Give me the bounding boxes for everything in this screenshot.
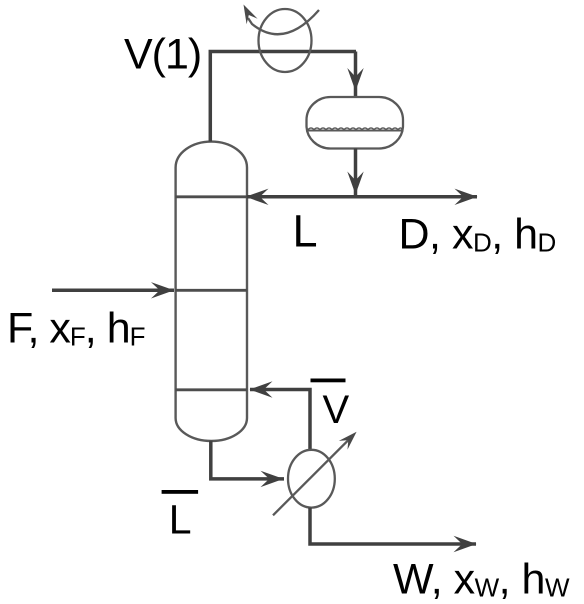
arrowhead L bar into reboiler [261,471,284,487]
svg-text:D, xD, hD: D, xD, hD [399,211,556,259]
feed line F [52,289,174,293]
condenser E1 [259,9,312,72]
distillate header line L / D [247,195,477,199]
label V bar overbar [311,379,346,383]
condenser coolant curve [248,10,319,34]
wire: reflux drum to distillate header [354,149,358,197]
svg-text:V: V [323,388,350,432]
reboiler steam arrowhead [339,432,357,450]
arrowhead W product [454,536,477,552]
reflux drum D1 [307,97,404,149]
boilup vapor line V bar into column [250,390,310,451]
svg-text:W, xW, hW: W, xW, hW [393,556,570,604]
liquid level wavy line [308,128,402,130]
arrowhead L into column [246,189,269,205]
arrowhead feed into column [151,282,174,298]
label L bar overbar [162,490,199,494]
wire: condenser to reflux drum [354,52,358,98]
arrowhead V bar into column [250,381,273,397]
arrowhead into reflux drum [347,68,363,91]
condenser coolant arrowhead [244,5,258,25]
svg-text:L: L [169,496,192,542]
column feed tray line [176,289,247,292]
svg-text:V(1): V(1) [124,31,201,79]
column top tray line [176,195,247,198]
bottoms liquid line L bar to reboiler [211,441,284,479]
liquid level line in drum [307,130,403,132]
reboiler E2 [288,450,335,508]
svg-text:F, xF, hF: F, xF, hF [7,305,145,353]
arrowhead onto distillate header [347,172,363,195]
svg-text:L: L [293,206,318,257]
reboiler steam line [273,436,352,515]
wire: overhead vapor from column top to condenser outlet corner [210,52,356,142]
arrowhead D product [455,189,478,205]
wire: reboiler to bottoms header [310,508,476,544]
column bottom tray line [176,388,247,391]
column C1 [176,142,247,441]
